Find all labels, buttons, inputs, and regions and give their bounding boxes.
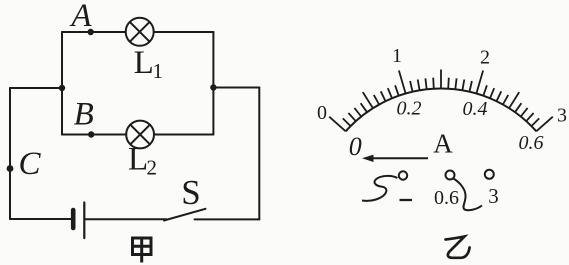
svg-text:3: 3 — [557, 105, 567, 127]
junction left — [59, 85, 65, 91]
battery positive plate — [83, 203, 85, 239]
wire left link — [10, 87, 62, 89]
ammeter ticks — [329, 70, 553, 132]
junction right — [210, 84, 216, 90]
svg-text:0: 0 — [317, 102, 327, 124]
svg-text:0.2: 0.2 — [397, 98, 422, 120]
svg-text:2: 2 — [480, 47, 490, 69]
lamp L2 — [126, 121, 154, 149]
svg-text:L: L — [134, 45, 154, 81]
svg-text:C: C — [18, 146, 41, 182]
terminal 0.6 circle — [446, 171, 455, 180]
svg-text:A: A — [433, 128, 453, 158]
wire top branch right — [154, 31, 214, 33]
label yi (乙) — [446, 237, 470, 258]
svg-text:0.6: 0.6 — [519, 132, 544, 154]
wire B branch right — [154, 134, 213, 136]
svg-text:0.4: 0.4 — [463, 98, 488, 120]
svg-text:B: B — [74, 96, 94, 132]
lamp L1 — [126, 18, 154, 46]
node A — [88, 29, 94, 35]
wire B branch left — [62, 134, 126, 136]
svg-text:3: 3 — [488, 184, 499, 208]
svg-text:1: 1 — [153, 59, 164, 83]
label jia (甲) — [133, 238, 152, 263]
ammeter arc — [346, 89, 537, 132]
wire right inner vertical — [212, 32, 214, 135]
svg-text:L: L — [128, 141, 148, 177]
terminal minus wire — [362, 176, 398, 201]
svg-text:0: 0 — [349, 132, 362, 161]
terminal minus circle — [399, 171, 407, 179]
terminal 0.6 wire — [454, 179, 483, 211]
label minus — [400, 199, 413, 201]
arrow pointer — [362, 155, 428, 162]
svg-text:S: S — [181, 173, 200, 212]
terminal 3 circle — [485, 170, 494, 179]
wire left rail — [9, 88, 11, 219]
wire bottom left — [10, 218, 71, 220]
wire top branch left — [62, 31, 126, 33]
wire right link — [213, 87, 259, 89]
wire left inner vertical — [61, 32, 63, 135]
svg-text:0.6: 0.6 — [434, 187, 459, 209]
switch S blade — [164, 209, 206, 221]
node C — [7, 165, 14, 172]
battery negative plate — [71, 210, 76, 228]
svg-text:1: 1 — [392, 45, 402, 67]
svg-text:2: 2 — [147, 156, 158, 180]
node B — [88, 131, 94, 137]
wire switch to right — [195, 218, 260, 220]
svg-text:A: A — [69, 0, 92, 34]
wire right rail — [258, 88, 260, 220]
wire battery to switch — [86, 218, 167, 220]
